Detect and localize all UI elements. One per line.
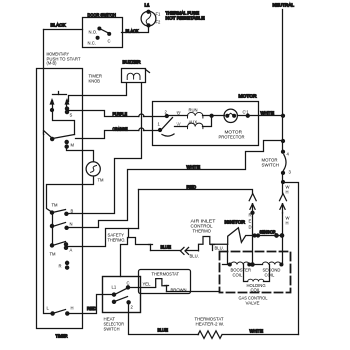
svg-text:HEATER-2 W.: HEATER-2 W. <box>196 322 225 327</box>
wire black: L1 supply to door switch N.O. <box>44 29 83 31</box>
label THERMOSTAT HEATER-2 W. <box>195 317 225 327</box>
timer box <box>37 69 83 329</box>
wire: motor switch to right rail <box>283 183 299 335</box>
wire brown: thermostat to gas valve <box>167 291 220 293</box>
motor switch MS <box>282 150 287 182</box>
svg-text:RED: RED <box>87 306 97 311</box>
motor terminal 2 <box>165 110 169 118</box>
wire neutral vertical <box>282 10 284 152</box>
wire white: heater to right rail <box>223 334 299 336</box>
label TIMER KNOB <box>89 74 103 84</box>
svg-text:NEUTRAL: NEUTRAL <box>273 3 295 8</box>
svg-text:H: H <box>286 221 289 226</box>
svg-text:SWITCH: SWITCH <box>104 327 120 332</box>
door switch contact N.O. <box>89 27 101 34</box>
svg-text:BLACK: BLACK <box>51 23 66 28</box>
air inlet control thermostat symbol <box>199 237 228 251</box>
heat selector switch box <box>103 277 141 313</box>
svg-text:COIL: COIL <box>233 273 243 278</box>
motor centrifugal switch blade <box>161 118 175 137</box>
svg-text:H: H <box>286 190 289 195</box>
svg-text:BLUE: BLUE <box>161 245 172 250</box>
svg-text:SENSOR: SENSOR <box>260 230 276 235</box>
disconnect white male <box>280 204 285 213</box>
svg-text:R: R <box>249 213 252 218</box>
wire booster line <box>223 264 231 266</box>
wire: main black feed down left side of timer <box>44 30 53 314</box>
wire purple: S to motor terminal 2 with hop over buzzer lead <box>67 111 139 117</box>
junction neutral-motor <box>282 114 285 117</box>
svg-text:WHITE: WHITE <box>187 165 201 170</box>
terminal tick <box>149 245 153 251</box>
wire blue: heat selector 2 down to heater <box>129 303 199 335</box>
timer contact TM-B <box>50 210 68 216</box>
timer contact TM-A <box>50 227 67 250</box>
fuse F1-F2 thermal fuse <box>141 10 156 27</box>
timer motor TM <box>86 162 100 176</box>
svg-text:R: R <box>59 264 62 269</box>
wire: air inlet thermo down to booster coil <box>227 245 229 265</box>
timer contact N <box>50 213 68 230</box>
svg-text:BROWN: BROWN <box>171 288 187 293</box>
wire: S tap to buzzer (left lead) <box>69 84 127 102</box>
svg-text:BLU.: BLU. <box>215 246 224 251</box>
svg-text:(M-B): (M-B) <box>47 61 58 66</box>
junction neutral-white <box>282 140 285 143</box>
svg-text:A: A <box>70 248 73 253</box>
svg-text:BLACK: BLACK <box>126 29 139 34</box>
svg-text:F2: F2 <box>156 20 162 25</box>
motor AUX winding <box>175 116 212 129</box>
junction motor switch out <box>282 181 285 184</box>
motor box <box>153 102 259 146</box>
label AIR INLET CONTROL THERMO <box>191 219 217 234</box>
svg-text:AUX.: AUX. <box>189 120 199 125</box>
svg-text:E: E <box>249 219 252 224</box>
resistor thermostat heater <box>198 331 222 339</box>
svg-text:THERMO.: THERMO. <box>108 238 126 243</box>
svg-text:S: S <box>70 113 73 118</box>
timer contact T push-to-start bar <box>53 92 67 95</box>
junction windings <box>210 114 213 117</box>
safety thermostat symbol <box>121 238 151 277</box>
svg-text:L1: L1 <box>145 3 150 8</box>
wire yellow: heat selector C to thermostat <box>129 287 156 289</box>
wire black: door switch C to thermal fuse F2 <box>122 26 149 33</box>
svg-text:C: C <box>108 39 111 44</box>
heat selector terminal L1 <box>112 285 117 297</box>
label HEAT SELECTOR SWITCH <box>104 317 125 332</box>
junction sensor-white <box>275 234 284 237</box>
buzzer BZ <box>122 69 150 83</box>
svg-text:BLU.: BLU. <box>190 254 199 259</box>
sensor <box>253 235 283 237</box>
label MOTOR SWITCH <box>262 158 280 168</box>
wire orange: L blade to motor terminal 1 with hop <box>76 131 139 139</box>
thermostat symbol <box>156 279 167 288</box>
svg-text:PROTECTOR: PROTECTOR <box>219 135 245 140</box>
svg-text:WHITE: WHITE <box>250 329 264 334</box>
svg-text:D: D <box>249 225 252 230</box>
svg-text:M: M <box>71 143 75 148</box>
svg-text:TM: TM <box>50 252 57 257</box>
terminal tick <box>165 286 169 292</box>
wire red: timer H to heat selector L1 <box>68 295 115 314</box>
svg-text:N.C.: N.C. <box>88 41 96 46</box>
heat selector lower terminal <box>112 297 133 310</box>
wire blue to air inlet thermo <box>187 250 199 252</box>
svg-text:THERMOSTAT: THERMOSTAT <box>152 272 180 277</box>
svg-text:C'1: C'1 <box>243 110 250 115</box>
svg-text:KNOB: KNOB <box>89 79 101 84</box>
wire: M contact to timer motor TM <box>67 147 94 162</box>
junction booster-red <box>251 263 254 266</box>
ignitor element <box>228 228 253 245</box>
connector chevrons <box>180 247 188 254</box>
terminal tick <box>211 245 215 251</box>
svg-text:IGNITOR: IGNITOR <box>225 220 246 225</box>
disconnect red male <box>250 204 255 215</box>
label MOMENTARY PUSH TO START (M-B) <box>47 52 81 66</box>
svg-text:B: B <box>71 209 74 214</box>
svg-text:'A': 'A' <box>177 122 182 127</box>
motor terminal 1 <box>158 122 162 132</box>
door switch common C <box>108 33 111 44</box>
timer contact R (unused) <box>59 261 69 269</box>
wire white: motor C to neutral <box>248 115 283 117</box>
heat selector terminal C <box>126 281 129 290</box>
wire: timer A to safety thermostat <box>67 229 139 247</box>
disconnect red female <box>249 194 256 201</box>
door switch blade <box>100 29 110 34</box>
wire: B contact to buzzer right lead <box>67 84 142 214</box>
gas control valve dashed box <box>220 252 291 293</box>
svg-text:WHITE: WHITE <box>261 111 275 116</box>
svg-text:F1: F1 <box>156 12 162 17</box>
second coil <box>253 262 283 266</box>
timer contact M <box>65 140 74 148</box>
label W H lower <box>286 216 290 226</box>
svg-text:N.O.: N.O. <box>89 30 98 35</box>
svg-text:RED: RED <box>187 185 197 190</box>
motor protector MP <box>212 109 248 122</box>
svg-text:TM: TM <box>98 178 105 183</box>
wire: TM motor to timer TM contacts column <box>47 177 94 213</box>
svg-text:DOOR SWITCH: DOOR SWITCH <box>88 13 116 18</box>
svg-text:COIL: COIL <box>251 288 261 293</box>
svg-text:BUZZER: BUZZER <box>123 60 141 65</box>
label SECOND COIL <box>263 268 281 278</box>
svg-text:BLUE: BLUE <box>158 328 169 333</box>
label HOLDING COIL <box>247 283 266 293</box>
door switch DS box <box>83 18 123 48</box>
wire red branch: down to safety thermo top <box>138 190 140 229</box>
timer contact L (start) <box>44 131 75 141</box>
heat selector blade L1-C <box>115 288 129 295</box>
label W H upper <box>286 185 290 195</box>
wire white: N contact to neutral via motor box right <box>67 141 283 228</box>
wire: T left terminal down to L blade tip <box>53 111 75 135</box>
svg-text:ORANGE: ORANGE <box>113 127 128 132</box>
svg-text:MOTOR: MOTOR <box>239 94 257 99</box>
svg-text:L1: L1 <box>112 285 117 290</box>
svg-text:SWITCH: SWITCH <box>262 163 280 168</box>
disconnect white female <box>280 183 287 201</box>
label SAFETY THERMO. <box>108 233 126 243</box>
door switch contact N.C. <box>88 36 100 45</box>
svg-text:TIMER: TIMER <box>56 334 68 339</box>
wire red: to sensor/booster junction <box>252 213 254 265</box>
svg-text:RUN: RUN <box>189 108 198 113</box>
label R E D vertical <box>249 213 252 230</box>
booster coil <box>228 262 252 266</box>
contact T left arrow terminal <box>50 100 53 112</box>
svg-text:VALVE: VALVE <box>246 301 260 306</box>
svg-text:YEL: YEL <box>143 282 152 287</box>
thermostat box <box>139 270 191 294</box>
svg-text:C: C <box>127 281 130 286</box>
label MOTOR PROTECTOR <box>219 130 245 140</box>
junction ignitor-red <box>253 234 259 237</box>
wire red: to ignitor <box>139 190 253 194</box>
wire blue to connector <box>151 250 181 252</box>
wire branch to safety thermostat <box>128 229 130 238</box>
motor terminal C <box>243 110 250 118</box>
svg-text:NOT RESETABLE: NOT RESETABLE <box>166 16 205 21</box>
svg-text:N: N <box>70 222 73 227</box>
contact S arrow terminal <box>65 100 68 114</box>
svg-text:TM: TM <box>52 203 59 208</box>
svg-text:THERMO: THERMO <box>193 229 212 234</box>
svg-text:'B': 'B' <box>177 111 182 116</box>
label BOOSTER COIL <box>231 268 251 278</box>
holding coil <box>244 265 270 282</box>
svg-text:H: H <box>71 306 74 311</box>
motor RUN winding <box>167 112 212 118</box>
label GAS CONTROL VALVE <box>239 296 269 306</box>
wire white: down to sensor and second coil <box>282 213 284 265</box>
timer contact L-H (heat) <box>51 310 69 316</box>
svg-text:PURPLE: PURPLE <box>113 112 128 117</box>
